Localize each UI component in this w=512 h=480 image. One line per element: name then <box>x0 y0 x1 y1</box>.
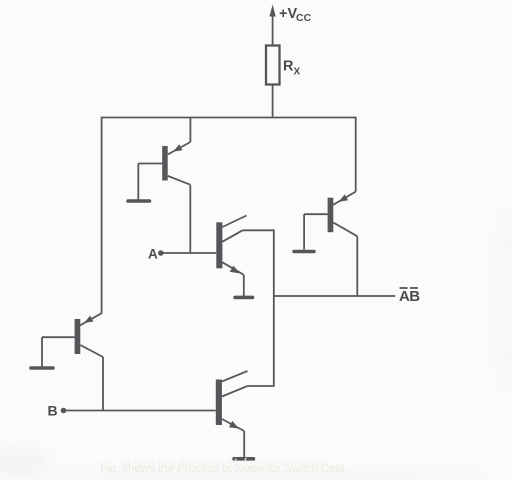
svg-text:R: R <box>283 59 294 75</box>
svg-text:CC: CC <box>296 12 312 24</box>
wire resistor to bus <box>272 85 274 118</box>
wire input B to Q5 base <box>64 410 216 412</box>
npn multicollector Q5 (input B) <box>216 371 274 458</box>
label RX <box>283 59 301 78</box>
label +VCC <box>279 6 312 24</box>
ground for Q5 emitter <box>234 457 254 461</box>
ground for Q2 emitter <box>235 296 253 300</box>
wire Q2 collector to output rail <box>243 229 274 231</box>
svg-text:B: B <box>48 403 58 419</box>
power supply +VCC arrow <box>269 5 275 46</box>
pnp injector Q1 (top left) <box>138 117 190 200</box>
wire supply bus <box>102 117 356 119</box>
node B terminal <box>48 403 67 419</box>
resistor RX <box>266 46 280 85</box>
npn multicollector Q2 (input A) <box>216 216 246 297</box>
wire left rail <box>101 117 103 314</box>
ground for Q1 base <box>128 199 150 203</box>
pnp Q3 (right) <box>304 192 357 296</box>
ground for Q4 base <box>31 366 53 370</box>
label output ABbar <box>399 288 420 305</box>
pnp injector Q4 (bottom left) <box>42 313 103 410</box>
faint scan smudges <box>0 210 512 480</box>
svg-text:B: B <box>409 288 420 305</box>
svg-text:of gate is a shown in I L for: of gate is a shown in I L for noise marg… <box>120 458 326 470</box>
wire right rail <box>355 117 357 192</box>
svg-text:A: A <box>148 246 158 261</box>
svg-text:X: X <box>294 67 301 78</box>
wire Q1 collector down to node A <box>189 185 191 253</box>
wire shared collector vertical <box>273 229 275 387</box>
node A terminal <box>148 246 164 261</box>
wire input A to Q2 base <box>161 252 217 254</box>
svg-text:+V: +V <box>279 6 297 22</box>
ground for Q3 base <box>294 250 314 254</box>
wire output net <box>274 295 396 297</box>
faint page caption remnants <box>100 458 345 475</box>
